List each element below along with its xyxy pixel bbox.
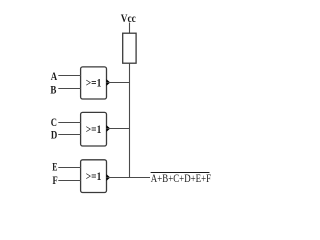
svg-text:A+B+C+D+E+F: A+B+C+D+E+F: [151, 173, 211, 185]
wire Vcc to resistor R1 top: [129, 23, 131, 34]
or-gate U3 body: [81, 160, 107, 193]
wire U3 output to bus and output node: [107, 177, 151, 179]
svg-text:E: E: [52, 161, 57, 173]
svg-text:C: C: [51, 117, 57, 129]
output label overline (NOT bar): [151, 172, 210, 174]
or-gate U1 body: [81, 67, 107, 99]
wire input E: [58, 167, 81, 169]
or-gate U1 output arrow: [106, 79, 110, 86]
svg-text:>=1: >=1: [86, 169, 102, 183]
wire input C: [58, 122, 81, 124]
or-gate U2 body: [81, 112, 107, 146]
wire input F: [58, 180, 81, 182]
svg-text:Vcc: Vcc: [121, 11, 137, 25]
svg-text:>=1: >=1: [86, 122, 102, 136]
wire U2 output to bus: [107, 128, 131, 130]
svg-text:A: A: [51, 71, 58, 83]
wire input A: [58, 75, 81, 77]
svg-text:F: F: [53, 175, 58, 187]
resistor R1 pull-up: [123, 33, 136, 63]
or-gate U3 output arrow: [106, 174, 110, 181]
svg-text:D: D: [51, 129, 57, 141]
svg-text:B: B: [50, 84, 56, 96]
wire input B: [58, 88, 81, 90]
wire bus from resistor R1 bottom to output node: [129, 63, 131, 178]
wire input D: [58, 134, 81, 136]
svg-text:>=1: >=1: [86, 76, 102, 90]
wire U1 output to bus: [107, 82, 131, 84]
or-gate U2 output arrow: [106, 125, 110, 132]
